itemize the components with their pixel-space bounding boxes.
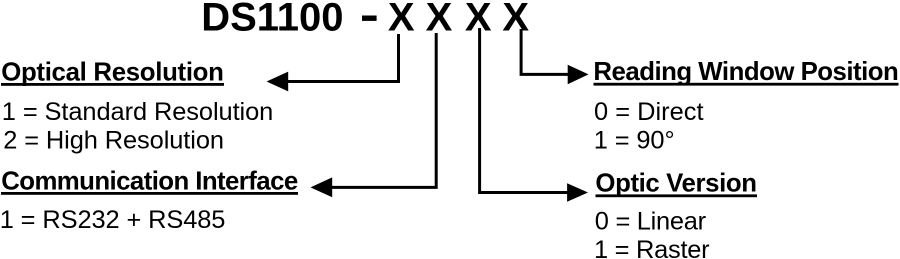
- svg-text:Communication Interface: Communication Interface: [1, 167, 298, 195]
- wire from X3 to Optic Version: [480, 28, 568, 193]
- title hyphen: [362, 16, 377, 21]
- arrowhead to Communication Interface: [311, 177, 333, 197]
- underline Optic Version: [596, 194, 758, 197]
- svg-text:X: X: [502, 0, 529, 39]
- wire from X4 to Reading Window Position: [521, 29, 568, 74]
- underline Optical Resolution: [1, 83, 224, 86]
- underline Reading Window Position: [594, 83, 899, 86]
- arrowhead to Optical Resolution: [267, 72, 289, 92]
- wire from X2 to Communication Interface: [332, 33, 436, 187]
- svg-text:1 = Raster: 1 = Raster: [594, 236, 710, 259]
- underline Communication Interface: [1, 192, 298, 195]
- svg-text:1 = Standard Resolution: 1 = Standard Resolution: [2, 98, 274, 126]
- svg-text:DS1100: DS1100: [201, 0, 343, 39]
- wire from X1 to Optical Resolution: [288, 34, 399, 82]
- svg-text:0 = Linear: 0 = Linear: [595, 208, 707, 236]
- svg-text:1 = RS232 + RS485: 1 = RS232 + RS485: [0, 206, 225, 234]
- svg-text:2 = High Resolution: 2 = High Resolution: [3, 127, 224, 155]
- svg-text:X: X: [388, 0, 415, 39]
- arrowhead to Reading Window Position: [568, 65, 589, 85]
- svg-text:Optic Version: Optic Version: [595, 170, 757, 198]
- svg-text:0 = Direct: 0 = Direct: [594, 98, 704, 126]
- svg-text:X: X: [426, 0, 453, 39]
- svg-text:Optical Resolution: Optical Resolution: [1, 58, 224, 86]
- svg-text:1 = 90°: 1 = 90°: [594, 127, 675, 155]
- svg-text:Reading Window Position: Reading Window Position: [593, 58, 898, 86]
- arrowhead to Optic Version: [567, 183, 588, 202]
